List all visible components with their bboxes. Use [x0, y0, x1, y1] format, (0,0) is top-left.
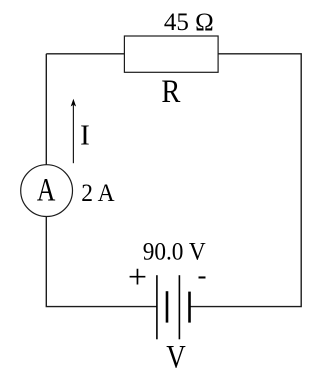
svg-text:-: -: [198, 260, 207, 290]
svg-text:+: +: [128, 259, 147, 296]
svg-text:A: A: [37, 173, 56, 209]
svg-text:V: V: [166, 340, 186, 376]
svg-text:I: I: [80, 120, 90, 152]
svg-text:R: R: [161, 74, 180, 110]
svg-text:2 A: 2 A: [81, 180, 114, 207]
svg-text:45 Ω: 45 Ω: [164, 9, 214, 36]
svg-text:90.0 V: 90.0 V: [143, 238, 206, 265]
